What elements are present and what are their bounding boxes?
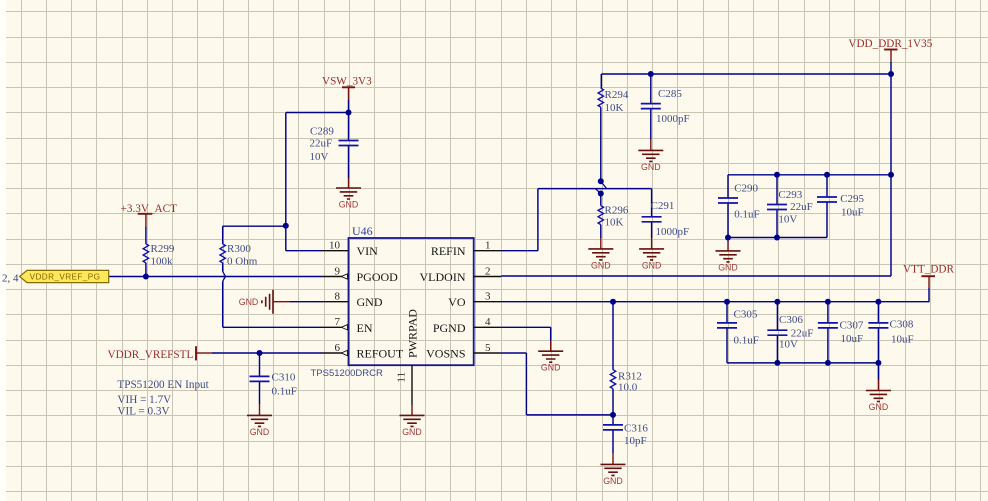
svg-text:10V: 10V [779,339,798,351]
svg-text:10V: 10V [310,151,329,163]
svg-text:VDDR_VREFSTL: VDDR_VREFSTL [108,349,194,361]
svg-text:C291: C291 [651,200,675,212]
svg-text:VIN: VIN [357,244,379,258]
svg-text:R299: R299 [151,243,175,255]
svg-text:C289: C289 [310,126,334,138]
svg-text:C307: C307 [840,320,864,332]
svg-text:10K: 10K [605,217,624,229]
svg-text:REFOUT: REFOUT [357,347,404,361]
svg-text:VSW_3V3: VSW_3V3 [322,76,372,88]
svg-text:9: 9 [335,265,341,277]
svg-text:0.1uF: 0.1uF [734,208,759,220]
svg-text:10uF: 10uF [891,334,914,346]
svg-text:6: 6 [335,342,341,354]
svg-text:VIH = 1.7V: VIH = 1.7V [117,394,171,406]
svg-text:2: 2 [485,265,491,277]
svg-text:22uF: 22uF [790,201,813,213]
svg-text:10: 10 [329,240,341,252]
svg-text:22uF: 22uF [310,138,333,150]
svg-text:5: 5 [485,342,491,354]
svg-text:U46: U46 [352,224,373,238]
svg-text:1000pF: 1000pF [656,226,690,238]
svg-text:TPS51200 EN Input: TPS51200 EN Input [117,379,209,391]
svg-text:10K: 10K [605,102,624,114]
svg-text:7: 7 [335,316,341,328]
svg-text:VIL = 0.3V: VIL = 0.3V [117,406,169,418]
svg-text:C308: C308 [890,319,914,331]
svg-text:1000pF: 1000pF [656,113,690,125]
svg-text:GND: GND [239,297,259,307]
svg-text:C305: C305 [734,309,758,321]
svg-text:R294: R294 [605,89,629,101]
svg-text:11: 11 [396,372,408,383]
svg-text:0.1uF: 0.1uF [272,386,297,398]
svg-text:VO: VO [448,295,466,309]
svg-text:8: 8 [335,291,341,303]
svg-text:PGND: PGND [433,321,466,335]
svg-text:10V: 10V [778,213,797,225]
svg-text:C306: C306 [779,314,803,326]
svg-text:2, 4: 2, 4 [2,273,19,285]
svg-text:GND: GND [357,295,383,309]
svg-text:0 Ohm: 0 Ohm [227,256,258,268]
svg-text:10uF: 10uF [841,333,864,345]
svg-text:10pF: 10pF [624,435,647,447]
svg-text:0.1uF: 0.1uF [734,335,759,347]
svg-text:3: 3 [485,291,491,303]
svg-text:PWRPAD: PWRPAD [406,309,420,358]
svg-text:PGOOD: PGOOD [357,270,399,284]
svg-text:VOSNS: VOSNS [426,347,465,361]
svg-text:REFIN: REFIN [431,244,466,258]
svg-text:10.0: 10.0 [618,382,638,394]
svg-text:VLDOIN: VLDOIN [420,270,466,284]
svg-text:100k: 100k [151,256,174,268]
svg-text:C285: C285 [658,88,682,100]
svg-text:+3.3V_ACT: +3.3V_ACT [121,203,178,215]
svg-text:4: 4 [485,316,491,328]
svg-text:VTT_DDR: VTT_DDR [903,264,954,276]
svg-text:1: 1 [485,240,491,252]
svg-text:C310: C310 [272,372,296,384]
svg-text:VDDR_VREF_PG: VDDR_VREF_PG [30,273,101,282]
svg-text:C295: C295 [840,193,864,205]
svg-text:10uF: 10uF [841,207,864,219]
svg-text:VDD_DDR_1V35: VDD_DDR_1V35 [848,38,932,50]
svg-text:R296: R296 [605,205,629,217]
svg-text:R300: R300 [227,243,251,255]
svg-text:C293: C293 [778,189,802,201]
svg-text:TPS51200DRCR: TPS51200DRCR [311,368,383,379]
svg-text:C316: C316 [624,423,648,435]
svg-text:EN: EN [357,321,373,335]
svg-text:C290: C290 [734,183,758,195]
